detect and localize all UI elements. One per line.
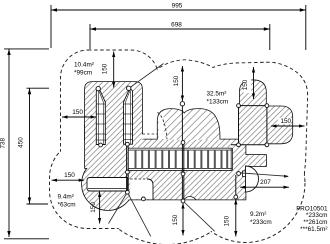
post block top-left <box>237 104 241 108</box>
zone lobe tower <box>61 51 158 186</box>
posts (circles) <box>96 86 269 203</box>
rays from posts <box>109 192 215 236</box>
150 bottom-mid arrows <box>181 203 184 209</box>
svg-text:*233cm: *233cm <box>250 219 272 226</box>
rails right block <box>231 144 267 146</box>
995 arrows <box>51 8 57 11</box>
svg-text:10.4m²: 10.4m² <box>74 62 94 69</box>
svg-text:150: 150 <box>242 79 249 90</box>
white box behind rotated 150 top-right <box>244 78 252 94</box>
dim 150 top-left line <box>113 52 115 88</box>
svg-text:995: 995 <box>172 3 183 10</box>
207 arrows <box>240 186 246 189</box>
post bridge left bottom <box>126 170 130 174</box>
dim 150 right line <box>271 125 305 127</box>
150 right arrows <box>271 124 277 127</box>
dim 150 top-right line <box>253 67 255 99</box>
post rail left vertical <box>126 144 128 192</box>
bridge rungs <box>136 150 228 169</box>
white cover tower edge below 134 <box>141 134 143 139</box>
svg-text:150: 150 <box>64 172 75 179</box>
svg-text:150: 150 <box>90 202 97 213</box>
post bench right <box>126 190 130 194</box>
post slide2 top <box>127 86 131 90</box>
dim 150 bottom-mid line <box>182 203 184 236</box>
tower platform outline <box>85 82 142 140</box>
post 207 line <box>237 172 241 176</box>
slide left white <box>96 90 105 145</box>
bridge end frame <box>231 148 232 171</box>
white sliver inside arch left <box>159 110 167 139</box>
climbing dome outline <box>158 109 220 140</box>
dim 150 bottom-left line <box>99 192 101 224</box>
dim 207 line <box>240 186 289 188</box>
central band outline <box>128 140 246 200</box>
round platform 9.4 outline <box>82 158 134 210</box>
zone lobe central <box>155 60 307 178</box>
bridge deck white <box>129 148 233 171</box>
structure connector lines <box>127 104 267 201</box>
150 bottom-left arrows <box>98 192 101 198</box>
svg-text:*99cm: *99cm <box>74 70 92 77</box>
dim 150 bottom-right line <box>235 199 237 237</box>
white cut below bridge left <box>130 179 153 199</box>
svg-text:150: 150 <box>224 215 231 226</box>
zone interior white pass <box>50 51 307 244</box>
svg-text:32.5m²: 32.5m² <box>207 91 227 98</box>
svg-text:150: 150 <box>173 75 180 86</box>
ray left down-right <box>127 192 150 236</box>
svg-text:150: 150 <box>102 63 109 74</box>
right platform outline <box>260 106 292 143</box>
9.2 tower cap outline <box>240 80 266 105</box>
svg-text:738: 738 <box>0 138 7 149</box>
leader line to slide <box>130 64 164 88</box>
post slide1 bottom <box>99 143 103 147</box>
150 top-right arrows <box>252 67 255 73</box>
slide exit semicircle <box>246 166 259 192</box>
ray right down-right <box>183 201 215 231</box>
svg-text:150: 150 <box>280 118 291 125</box>
post line bottom right <box>235 175 237 197</box>
slide right white <box>124 90 133 145</box>
svg-text:150: 150 <box>172 214 179 225</box>
738 arrows <box>7 49 10 55</box>
bridge rails <box>128 148 232 170</box>
dim 450 line <box>29 88 31 203</box>
svg-text:450: 450 <box>18 137 25 148</box>
hatched platforms : stroke pass <box>82 80 292 210</box>
dim 698 line <box>90 28 270 30</box>
post dome apex <box>180 102 184 106</box>
hatched platforms : hatch fill pass <box>82 80 292 210</box>
post block bottom-left <box>237 143 241 147</box>
ray left down-left <box>109 192 128 223</box>
698 arrows <box>90 27 96 30</box>
150 mid-left arrows <box>62 115 68 118</box>
post slide1 top <box>96 86 100 90</box>
dome pole vertical <box>181 104 183 201</box>
small step right of bridge <box>243 171 248 177</box>
dim 738 line <box>8 49 10 237</box>
zone lobe bridge bottom <box>84 79 249 244</box>
dim 995 line <box>51 9 306 11</box>
post bridge mid bottom <box>181 172 185 176</box>
svg-text:***61.5m²: ***61.5m² <box>300 226 327 233</box>
svg-text:**261cm: **261cm <box>303 219 327 226</box>
zone lobe 9.2 area <box>187 124 305 242</box>
svg-text:9.2m²: 9.2m² <box>250 211 266 218</box>
svg-text:207: 207 <box>260 179 271 186</box>
post platform bottom left <box>142 197 146 201</box>
150 bottom-right arrows <box>234 199 237 205</box>
post block top-right <box>265 104 269 108</box>
post platform bottom mid <box>181 199 185 203</box>
450 arrows <box>28 88 31 94</box>
150 top-left arrows <box>112 52 115 58</box>
dim 150 center-top line <box>181 66 183 101</box>
post platform bottom right <box>234 195 238 199</box>
150 lower-left arrows <box>52 179 58 182</box>
dashed hidden edge right of tower <box>142 133 158 135</box>
dim 150 mid-left line <box>62 116 96 118</box>
svg-text:9.4m²: 9.4m² <box>58 194 74 201</box>
post block bottom-right <box>265 143 269 147</box>
bump on band bottom edge <box>184 196 196 199</box>
post bridge left top <box>126 142 130 146</box>
dashed hidden edge of arch <box>157 112 167 139</box>
150 center-top arrows <box>181 66 184 72</box>
svg-text:*63cm: *63cm <box>58 202 76 209</box>
dim 150 lower-left line <box>52 179 85 181</box>
svg-text:698: 698 <box>171 22 182 29</box>
dashed safety zone outline : stroke pass <box>50 51 307 244</box>
zone lobe 9.4 area <box>50 141 165 229</box>
svg-text:*133cm: *133cm <box>207 99 229 106</box>
post dome base <box>181 141 185 145</box>
sloped measured line 207 <box>240 173 289 177</box>
svg-text:150: 150 <box>72 109 83 116</box>
bench white <box>87 178 128 192</box>
